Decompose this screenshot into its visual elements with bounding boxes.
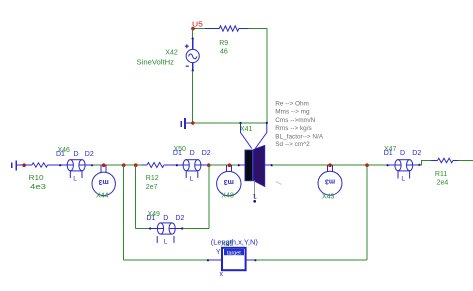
wire jog X47 to R11 [419,161,431,166]
svg-text:m3: m3 [99,178,109,185]
junction X44 [102,163,106,167]
probe target [208,248,256,278]
svg-text:2e4: 2e4 [437,180,449,187]
pin dot X47 left [387,164,389,166]
pin dot speaker top right [266,122,268,124]
svg-text:D: D [400,150,405,157]
svg-text:L: L [401,176,405,183]
svg-text:L: L [73,175,77,182]
svg-text:D: D [74,151,79,158]
svg-text:X42: X42 [165,50,178,57]
bottom rail right [256,259,368,261]
wire right vertical down [266,29,268,124]
pin dot speaker right [271,164,273,166]
annotation text block [275,100,324,148]
transformer X50 [177,160,209,178]
current probe I (left) [12,161,23,171]
svg-text:L: L [164,239,168,246]
current probe I (top) [181,118,192,129]
pin dot X46 right [91,164,93,166]
svg-text:D1: D1 [173,150,182,157]
svg-text:BL_factor--> N/A: BL_factor--> N/A [275,133,324,140]
svg-text:D1: D1 [147,215,156,222]
svg-text:D1: D1 [384,150,393,157]
speaker bottom pin [253,180,255,199]
pin dot X49 left [149,227,151,229]
pin dot X47 right [418,164,420,166]
transformer X49 [150,223,182,243]
svg-text:Rms --> kg/s: Rms --> kg/s [275,125,311,132]
svg-text:target: target [227,250,241,256]
junction X50 right [207,163,211,167]
junction middle branch [134,163,138,167]
svg-text:X41: X41 [240,126,253,133]
voltage source X42 [185,39,199,71]
wire X50 to speaker [209,164,239,166]
svg-text:D: D [163,215,168,222]
svg-text:Re --> Ohm: Re --> Ohm [275,100,309,107]
gyrator X43 [318,165,342,195]
wire speaker to X47 [272,164,388,166]
junction U5 [191,27,195,31]
wire right branch vertical [366,165,368,260]
svg-text:x: x [220,271,224,278]
wire R11 to edge [459,160,473,162]
svg-text:R10: R10 [29,175,44,182]
svg-text:(Length,x,Y,N): (Length,x,Y,N) [211,240,258,247]
wire source to bottom node [192,71,194,124]
svg-text:D: D [190,150,195,157]
svg-text:Mms --> mg: Mms --> mg [275,109,310,116]
svg-text:R11: R11 [435,171,447,178]
junction left branch [122,163,126,167]
wire X49 to vertical [182,228,209,230]
pin dot source top [192,38,194,40]
pin dot X50 left [176,164,178,166]
resistor R9 [205,26,249,31]
resistor R11 [431,158,459,162]
junction left probe [22,163,26,167]
resistor R12 [142,163,177,168]
wire left branch vertical [123,165,125,260]
svg-text:X48: X48 [221,193,234,200]
svg-text:D2: D2 [202,150,211,157]
gyrator X44 [92,165,115,196]
svg-text:L: L [190,175,194,182]
junction right branch [365,163,369,167]
bottom rail left [124,259,208,261]
junction X48 [228,163,232,167]
wire U5 down to source [192,29,194,39]
svg-text:m3: m3 [224,178,234,185]
pin dot X46 left [59,164,61,166]
junction top probe [191,121,195,125]
pin dot speaker top left [239,122,241,124]
svg-text:2e7: 2e7 [146,184,158,191]
pin dot X49 right [181,227,183,229]
wire probe to speaker top [193,122,267,124]
junction X43 [328,163,332,167]
svg-text:R9: R9 [219,40,228,47]
pin dot target right [254,259,256,261]
svg-text:Y: Y [216,249,221,256]
svg-text:X43: X43 [322,193,335,200]
transformer X47 [388,160,420,179]
wire R9 to right corner [249,28,268,30]
svg-text:X44: X44 [96,193,109,200]
faint mark [276,182,282,185]
wire X46 to R12 [92,164,141,166]
svg-text:Sd --> cm^2: Sd --> cm^2 [275,141,310,148]
svg-text:D2: D2 [175,215,184,222]
svg-text:D2: D2 [412,150,421,157]
wire middle branch vertical [135,165,137,229]
svg-text:4e3: 4e3 [30,184,46,191]
svg-text:Cms -->mm/N: Cms -->mm/N [275,117,315,124]
svg-text:46: 46 [220,49,228,56]
svg-text:SineVoltHz: SineVoltHz [137,59,175,66]
loudspeaker X41 body [239,164,245,166]
pin dot speaker left [238,164,240,166]
pin dot target left [207,259,209,261]
wire U5 to R9 [193,28,205,30]
speaker X41 top leads [241,123,267,149]
svg-text:m3: m3 [325,178,335,185]
svg-text:D2: D2 [85,151,94,158]
wire X49 right vertical [208,165,210,229]
svg-text:D1: D1 [56,151,65,158]
svg-text:R12: R12 [146,175,159,182]
resistor R10 [24,163,60,167]
gyrator X48 [217,165,241,196]
transformer X46 [60,160,92,178]
pin dot source bottom [192,69,194,71]
wire to X49 [136,228,151,230]
